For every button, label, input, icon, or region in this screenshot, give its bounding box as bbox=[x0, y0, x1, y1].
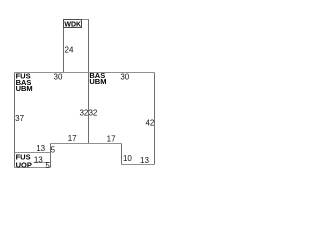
svg-text:UBM: UBM bbox=[89, 77, 106, 86]
wall: WDK deck top edge bbox=[64, 19, 89, 21]
svg-text:30: 30 bbox=[120, 72, 129, 81]
svg-text:37: 37 bbox=[15, 114, 24, 123]
wall: porch FUS/UOP right edge bbox=[50, 153, 52, 168]
svg-text:42: 42 bbox=[145, 119, 154, 128]
svg-text:UOP: UOP bbox=[16, 160, 32, 169]
wall: main right edge bbox=[154, 73, 156, 165]
label box around WDK bbox=[64, 20, 82, 28]
wall: WDK deck right edge bbox=[88, 19, 90, 73]
wall: step down at x=121.5 (dim 10) bbox=[121, 144, 123, 165]
wall: porch interior divider (under 13) bbox=[34, 162, 51, 164]
wall: main top edge bbox=[15, 72, 155, 74]
svg-text:WDK: WDK bbox=[64, 22, 81, 29]
wall: middle bottom edge (17+17) bbox=[51, 143, 122, 145]
wall: lower-left edge (dim 13) bbox=[15, 152, 51, 154]
wall: interior wall between FUS and BAS sections bbox=[88, 73, 90, 144]
svg-text:5: 5 bbox=[45, 161, 50, 170]
svg-text:UBM: UBM bbox=[16, 84, 33, 93]
svg-text:24: 24 bbox=[65, 45, 74, 54]
wall: step down at x=50.5 (dim 5) bbox=[50, 144, 52, 153]
wall: WDK deck left edge bbox=[63, 19, 65, 73]
svg-text:5: 5 bbox=[51, 146, 56, 155]
wall: bottom-right edge (dim 13) bbox=[122, 164, 155, 166]
svg-text:17: 17 bbox=[68, 134, 77, 143]
wall: porch FUS/UOP left edge bbox=[14, 153, 16, 168]
svg-text:13: 13 bbox=[34, 155, 43, 164]
svg-text:13: 13 bbox=[36, 144, 45, 153]
svg-text:32: 32 bbox=[88, 108, 97, 117]
svg-text:17: 17 bbox=[107, 134, 116, 143]
wall: porch FUS/UOP bottom edge bbox=[15, 167, 51, 169]
wall: main left edge bbox=[14, 73, 16, 153]
svg-text:13: 13 bbox=[140, 156, 149, 165]
svg-text:30: 30 bbox=[54, 72, 63, 81]
svg-text:10: 10 bbox=[123, 154, 132, 163]
